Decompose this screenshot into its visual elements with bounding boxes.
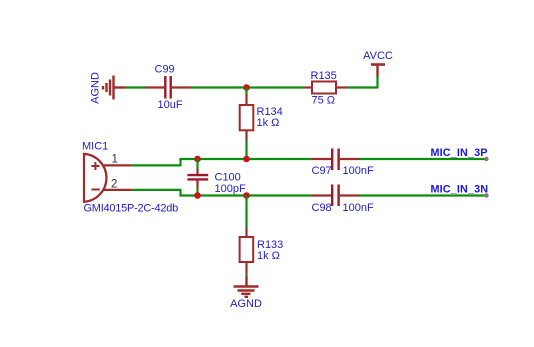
svg-text:AGND: AGND (90, 72, 102, 104)
net label MIC_IN_3N (431, 183, 489, 197)
wire (196, 159, 198, 169)
wire (247, 86, 305, 88)
capacitor C97 (312, 149, 374, 177)
svg-text:C100: C100 (215, 172, 241, 184)
junction node (lower rail / C100 bottom) (194, 192, 201, 199)
net label MIC_IN_3P (431, 147, 489, 161)
junction node (upper rail / R134 bottom) (243, 156, 250, 163)
wire (131, 189, 198, 197)
capacitor C99 (146, 64, 191, 112)
microphone MIC1 (82, 141, 178, 215)
svg-text:MIC1: MIC1 (82, 141, 108, 153)
svg-text:100nF: 100nF (343, 202, 374, 214)
junction node (upper rail / C100 top) (194, 156, 201, 163)
svg-text:1: 1 (112, 154, 118, 166)
svg-text:AGND: AGND (230, 298, 262, 310)
wire (245, 88, 247, 95)
svg-text:100pF: 100pF (215, 183, 246, 195)
wire (196, 189, 198, 196)
wire (348, 76, 378, 89)
wire (131, 158, 198, 166)
svg-text:MIC_IN_3N: MIC_IN_3N (431, 183, 489, 195)
svg-text:C98: C98 (312, 202, 332, 214)
wire (126, 86, 146, 88)
svg-text:R135: R135 (311, 70, 337, 82)
capacitor C100 (187, 169, 246, 196)
ground AGND (top-left) (90, 72, 126, 104)
wire (198, 158, 247, 160)
svg-text:10uF: 10uF (158, 99, 183, 111)
junction node (top rail / R134) (243, 84, 250, 91)
svg-text:100nF: 100nF (343, 165, 374, 177)
svg-text:C97: C97 (312, 165, 332, 177)
wire (191, 86, 247, 88)
svg-text:AVCC: AVCC (363, 50, 393, 62)
wire (198, 194, 247, 196)
svg-text:75 Ω: 75 Ω (312, 95, 336, 107)
wire (247, 194, 312, 196)
wire (245, 196, 247, 229)
wire (245, 141, 247, 160)
wire (245, 274, 247, 278)
svg-text:1k Ω: 1k Ω (257, 117, 280, 129)
wire (247, 158, 312, 160)
wire (360, 158, 487, 160)
resistor R135 (305, 70, 348, 107)
svg-text:R134: R134 (257, 106, 283, 118)
ground AGND (bottom) (230, 277, 262, 311)
resistor R133 (240, 228, 284, 274)
power AVCC (363, 50, 393, 77)
resistor R134 (240, 94, 283, 141)
svg-text:C99: C99 (155, 64, 175, 76)
svg-text:MIC_IN_3P: MIC_IN_3P (431, 147, 488, 159)
svg-text:1k Ω: 1k Ω (257, 250, 280, 262)
svg-text:GMI4015P-2C-42db: GMI4015P-2C-42db (84, 203, 179, 215)
pin 2 of MIC1 (104, 179, 131, 191)
junction node (lower rail / R133 top) (243, 192, 250, 199)
pin 1 of MIC1 (104, 154, 131, 166)
svg-text:2: 2 (111, 179, 117, 191)
capacitor C98 (312, 185, 374, 215)
wire (360, 194, 487, 196)
